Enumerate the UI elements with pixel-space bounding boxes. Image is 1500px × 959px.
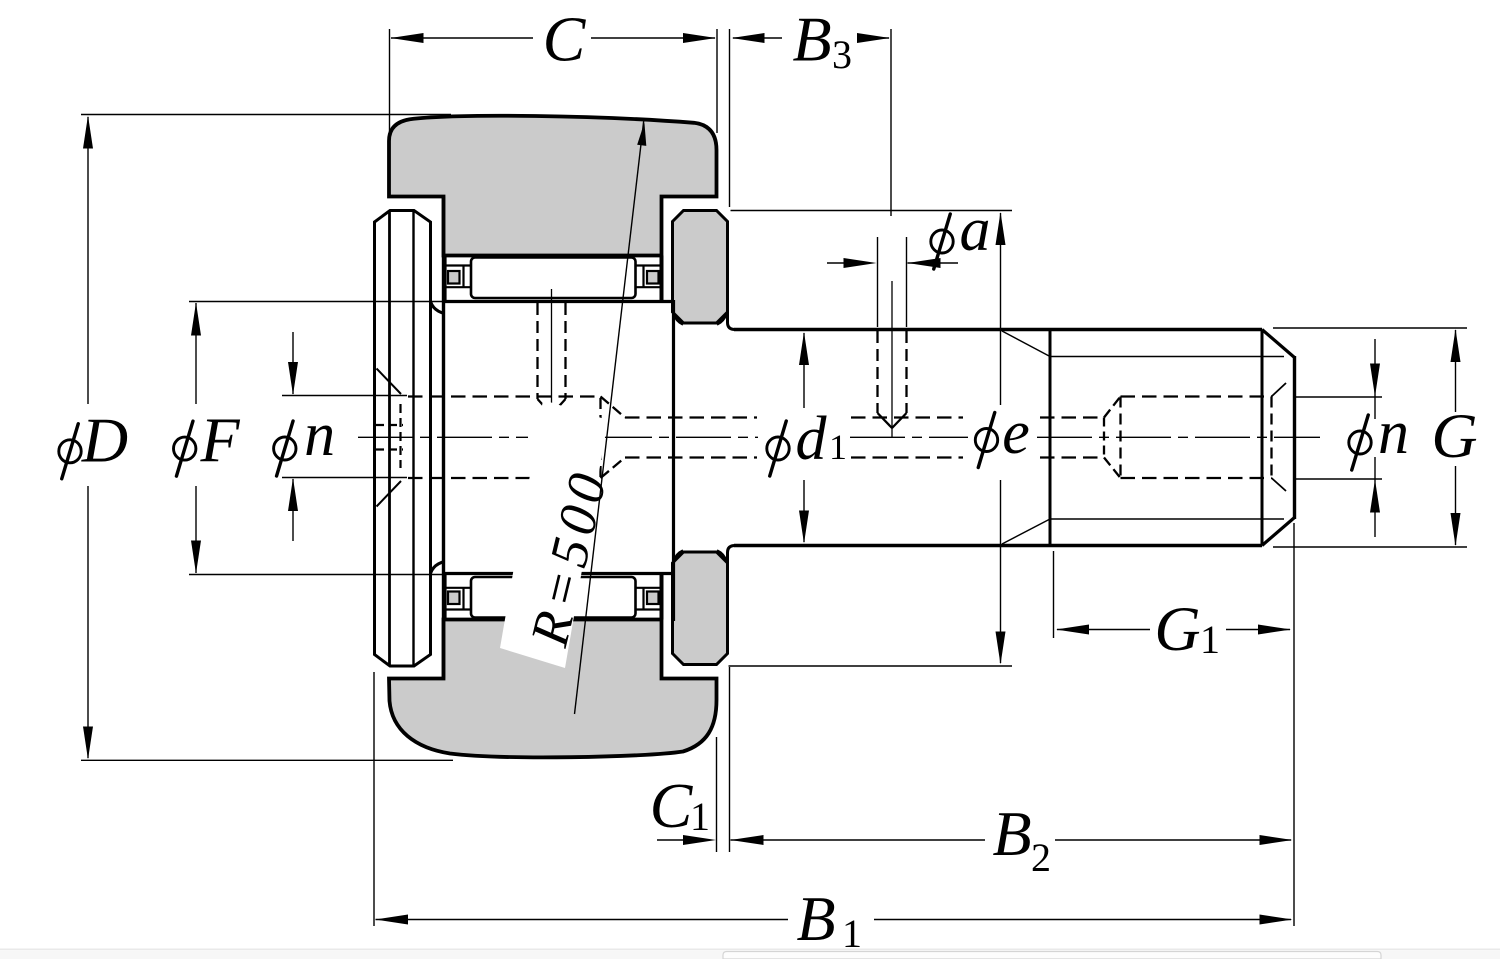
svg-text:B: B	[796, 883, 835, 954]
svg-text:1: 1	[1200, 617, 1220, 662]
svg-text:D: D	[81, 405, 128, 476]
svg-text:n: n	[1378, 399, 1409, 467]
svg-text:F: F	[199, 404, 240, 475]
svg-text:n: n	[304, 401, 335, 469]
svg-text:a: a	[960, 196, 991, 264]
svg-text:1: 1	[829, 427, 847, 467]
svg-text:G: G	[1431, 400, 1477, 471]
svg-text:2: 2	[1031, 835, 1051, 880]
svg-text:C: C	[543, 4, 587, 75]
svg-text:1: 1	[690, 794, 710, 839]
svg-text:d: d	[796, 405, 828, 473]
svg-text:B: B	[992, 798, 1031, 869]
svg-text:e: e	[1002, 399, 1030, 467]
svg-text:3: 3	[832, 32, 852, 77]
svg-text:C: C	[650, 770, 694, 841]
svg-text:G: G	[1154, 593, 1200, 664]
svg-text:B: B	[792, 4, 831, 75]
